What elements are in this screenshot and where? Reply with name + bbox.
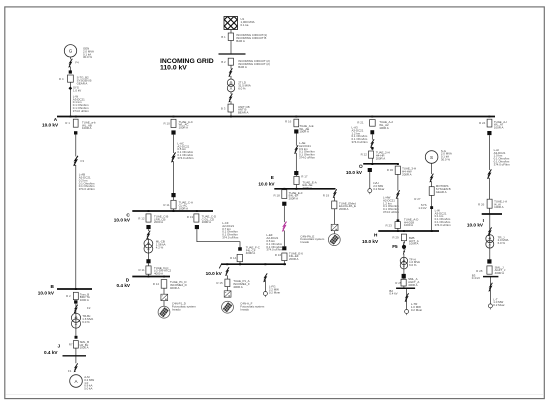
breaker R16b bbox=[282, 253, 287, 261]
wire down to bus B bbox=[75, 135, 77, 290]
magenta fault bolt bbox=[282, 222, 287, 232]
node square bbox=[171, 130, 175, 134]
svg-text:TUAE_2-HH4-HR200R A: TUAE_2-HH4-HR200R A bbox=[376, 151, 390, 161]
svg-text:F1: F1 bbox=[68, 369, 72, 373]
wire down to bus H bbox=[397, 174, 399, 231]
generator GEN bbox=[64, 45, 76, 57]
breaker R2 bbox=[73, 292, 78, 299]
wire down to bus F bbox=[283, 206, 285, 247]
wire bbox=[75, 304, 77, 336]
node square bbox=[402, 274, 406, 279]
svg-text:R 13: R 13 bbox=[187, 215, 194, 219]
svg-text:B20.4 kV: B20.4 kV bbox=[389, 289, 397, 296]
fault bolt bbox=[370, 139, 374, 148]
node square bbox=[171, 193, 175, 197]
junctions on bus E bbox=[283, 188, 297, 190]
svg-text:R7: R7 bbox=[69, 342, 73, 346]
wire down bbox=[371, 134, 373, 150]
svg-text:L-AEA2-DC210.9 km0.1 Ohm/km0.1: L-AEA2-DC210.9 km0.1 Ohm/km0.1 Ohm/km374… bbox=[299, 141, 316, 160]
junctions on bus C bbox=[148, 210, 198, 212]
transformer ML-CB bbox=[144, 239, 153, 253]
svg-text:R 16: R 16 bbox=[285, 120, 292, 124]
breaker R12b bbox=[161, 280, 167, 289]
breaker B1 bbox=[228, 33, 233, 41]
node square bbox=[69, 70, 72, 73]
svg-text:TUAE_C-DC-DL_CD100R A: TUAE_C-DC-DL_CD100R A bbox=[202, 214, 216, 224]
fault bolt under I2 bbox=[488, 283, 492, 292]
wire grid to B1 bbox=[230, 30, 232, 33]
external grid U1 bbox=[214, 7, 247, 36]
svg-text:10.0 kV: 10.0 kV bbox=[258, 182, 275, 187]
node square bbox=[195, 225, 199, 229]
bus D 0.4 kV bbox=[132, 276, 170, 278]
breaker R26 bbox=[487, 199, 492, 208]
svg-text:INCOMING CIRCUIT (2)INCOMING C: INCOMING CIRCUIT (2)INCOMING CIRCUIT (2)… bbox=[238, 59, 270, 69]
fault node F5 bbox=[403, 241, 405, 246]
svg-text:R 19: R 19 bbox=[323, 193, 330, 197]
load feeder on bus F bbox=[263, 273, 267, 282]
svg-text:R 27: R 27 bbox=[414, 197, 421, 201]
svg-text:L-ACA2-DC210.5 km0.1 Ohm/km0.1: L-ACA2-DC210.5 km0.1 Ohm/km0.1 Ohm/km374… bbox=[177, 141, 194, 160]
node square bbox=[74, 131, 77, 134]
svg-text:TUAE_a-bWL_AB100R A: TUAE_a-bWL_AB100R A bbox=[82, 120, 96, 130]
svg-text:TUAE_A-2WL_A2100R A: TUAE_A-2WL_A2100R A bbox=[379, 120, 393, 130]
transformer TR-B bbox=[71, 313, 80, 328]
svg-text:R 28: R 28 bbox=[476, 269, 483, 273]
svg-text:TUAE_F-CF4L-CF400R A: TUAE_F-CF4L-CF400R A bbox=[246, 245, 260, 255]
fault bolt bbox=[429, 174, 433, 183]
svg-text:L-AIA3-DC211.0 km0.1 Ohm/km0.1: L-AIA3-DC211.0 km0.1 Ohm/km0.1 Ohm/km374… bbox=[494, 148, 511, 167]
svg-text:C4N-A_FFotovoltaic systemInvad: C4N-A_FFotovoltaic systemInvado bbox=[240, 302, 265, 312]
fault bolt under bus F bbox=[225, 267, 229, 276]
breaker R13 bbox=[194, 214, 199, 222]
svg-text:U11,000 MVA0.1 ka: U11,000 MVA0.1 ka bbox=[241, 17, 255, 27]
breaker R16 bbox=[294, 119, 299, 127]
svg-text:R 24: R 24 bbox=[479, 121, 486, 125]
bus H2 0.4 kV bbox=[396, 287, 415, 289]
pv panel D bbox=[158, 306, 170, 318]
svg-text:TUAE_A-DH4-D281000 A: TUAE_A-DH4-D281000 A bbox=[404, 217, 418, 227]
wire bbox=[226, 276, 228, 294]
svg-text:L-WA3-DC210.1 km0.1 Ohm/km0.1: L-WA3-DC210.1 km0.1 Ohm/km0.1 Ohm/km374.… bbox=[73, 94, 90, 113]
svg-text:TUAE_EMedE4-DG-PA_E200R A: TUAE_EMedE4-DG-PA_E200R A bbox=[339, 201, 356, 211]
breaker R30 bbox=[395, 166, 400, 174]
fault bolt under H2 bbox=[405, 293, 409, 302]
G end circle bbox=[359, 165, 362, 168]
generator S-G bbox=[425, 151, 438, 164]
wire to bus F bbox=[239, 262, 241, 264]
breaker R17 bbox=[294, 176, 299, 184]
svg-text:TUAE_I-AI4_AI100R A: TUAE_I-AI4_AI100R A bbox=[494, 199, 507, 209]
svg-text:L-TR1.0 MW0.2 Mvar: L-TR1.0 MW0.2 Mvar bbox=[411, 302, 422, 312]
breaker R12 bbox=[146, 214, 151, 222]
load circle I2 bbox=[488, 304, 492, 310]
svg-text:SML_BLR_Bx1000 A: SML_BLR_Bx1000 A bbox=[80, 340, 90, 350]
bus F 10.0 kV bbox=[221, 263, 286, 265]
wire bbox=[489, 214, 491, 259]
svg-text:UNIT CBANT BBEAR A: UNIT CBANT BBEAR A bbox=[238, 105, 250, 115]
svg-text:10.0 kV: 10.0 kV bbox=[467, 222, 484, 227]
svg-text:F4: F4 bbox=[75, 61, 79, 65]
node square bbox=[238, 247, 242, 251]
svg-text:TUAE_D-CLG-DN-ATC24000 A: TUAE_D-CLG-DN-ATC24000 A bbox=[154, 266, 172, 276]
node SYS diamond bbox=[68, 86, 72, 90]
svg-text:2T LD31.5 MVA6.0 %: 2T LD31.5 MVA6.0 % bbox=[238, 81, 251, 91]
svg-text:R 16: R 16 bbox=[275, 253, 282, 257]
fault bolt F3 bbox=[73, 156, 78, 166]
wire down to bus E bbox=[295, 134, 297, 189]
svg-text:R 11: R 11 bbox=[163, 203, 169, 207]
svg-text:1.0 kV: 1.0 kV bbox=[418, 206, 426, 210]
wire down to bus I bbox=[488, 135, 490, 214]
svg-text:J: J bbox=[58, 343, 61, 348]
svg-text:TUAE_E-6F4L-EF200R A: TUAE_E-6F4L-EF200R A bbox=[289, 251, 303, 261]
fault bolt under transformer bbox=[228, 94, 232, 103]
fault bolt under bus I bbox=[488, 227, 492, 236]
svg-text:TUAE_A-IWL_AI100R A: TUAE_A-IWL_AI100R A bbox=[494, 120, 507, 130]
transformer TF-H bbox=[400, 257, 407, 269]
inverter E bbox=[331, 224, 338, 230]
svg-text:L-T1.0 MW0.2 Mvar: L-T1.0 MW0.2 Mvar bbox=[493, 297, 504, 307]
breaker R10 bbox=[171, 119, 176, 127]
svg-text:S-G2.0 MVA0.1 kA30.0 %: S-G2.0 MVA0.1 kA30.0 % bbox=[441, 149, 452, 162]
svg-text:F2: F2 bbox=[87, 306, 91, 310]
wire R4 to bus A bbox=[69, 82, 71, 116]
svg-text:10.0 kV: 10.0 kV bbox=[206, 271, 223, 276]
svg-text:L-FG2.2 MW0.2 Mvar: L-FG2.2 MW0.2 Mvar bbox=[269, 285, 280, 295]
wire bbox=[406, 288, 408, 309]
svg-text:TUAE_P1_DINCOME2_D400R A: TUAE_P1_DINCOME2_D400R A bbox=[170, 280, 187, 290]
node square bbox=[487, 131, 491, 135]
svg-text:L-WA3-DC210.1 km0.1 Ohm/km0.1: L-WA3-DC210.1 km0.1 Ohm/km0.1 Ohm/km374.… bbox=[435, 208, 452, 227]
svg-text:R 18: R 18 bbox=[274, 193, 281, 197]
svg-text:TUAE_C-ACL-AC100R A: TUAE_C-ACL-AC100R A bbox=[179, 201, 193, 211]
breaker B2 bbox=[228, 58, 233, 65]
wire gen down bbox=[70, 57, 72, 71]
junction squares on bus A bbox=[70, 116, 491, 118]
fault bolt bbox=[146, 231, 150, 240]
breaker R25 bbox=[401, 279, 406, 286]
svg-text:TUAE_P1_AINCOME1_F400R A: TUAE_P1_AINCOME1_F400R A bbox=[233, 279, 250, 289]
svg-text:B30.4 kV: B30.4 kV bbox=[472, 273, 480, 280]
svg-text:R 15: R 15 bbox=[216, 281, 223, 285]
wire B2 down bbox=[230, 65, 232, 79]
wire down bbox=[333, 209, 335, 234]
fault bolt on incoming bbox=[228, 68, 232, 77]
node square bbox=[294, 129, 298, 133]
bus G 10.0 kV bbox=[363, 163, 398, 165]
wire bbox=[163, 288, 165, 306]
svg-text:B 2: B 2 bbox=[221, 60, 226, 64]
breaker R24 bbox=[487, 119, 492, 127]
wire to bus F bbox=[283, 261, 285, 265]
svg-text:10.0 kV: 10.0 kV bbox=[42, 123, 59, 128]
svg-text:0.4 kV: 0.4 kV bbox=[117, 283, 131, 288]
svg-text:G: G bbox=[69, 49, 73, 54]
svg-text:H: H bbox=[374, 233, 378, 238]
breaker R22 bbox=[369, 151, 374, 158]
node square bbox=[371, 147, 373, 149]
svg-text:R 26: R 26 bbox=[478, 203, 485, 207]
breaker R11 bbox=[171, 200, 176, 209]
svg-text:R 11: R 11 bbox=[139, 268, 145, 272]
svg-text:F5: F5 bbox=[392, 244, 398, 249]
wire bbox=[489, 277, 491, 304]
wire B1 to bus bbox=[230, 41, 232, 54]
breaker R28 bbox=[487, 266, 492, 274]
svg-text:R 12: R 12 bbox=[153, 282, 160, 286]
svg-text:D: D bbox=[126, 278, 130, 283]
svg-text:10.0 kV: 10.0 kV bbox=[38, 290, 55, 295]
svg-text:R 23: R 23 bbox=[386, 224, 393, 228]
svg-text:R 29: R 29 bbox=[392, 236, 399, 240]
svg-text:A: A bbox=[54, 117, 58, 122]
wire down bbox=[403, 241, 405, 289]
svg-text:A-M0.2 MW1.00.9 kA5.0 kA: A-M0.2 MW1.00.9 kA5.0 kA bbox=[84, 375, 94, 391]
transformer TR_J bbox=[486, 235, 494, 249]
breaker R4 bbox=[68, 75, 74, 82]
load LVH on bus G bbox=[368, 168, 372, 172]
bus F end tick bbox=[219, 264, 221, 268]
wire down bbox=[431, 163, 433, 231]
svg-text:C4N-P1_DFotovoltaic systemInva: C4N-P1_DFotovoltaic systemInvado bbox=[172, 302, 197, 312]
svg-text:TR_J2.0 MVA6.0 %: TR_J2.0 MVA6.0 % bbox=[498, 235, 509, 245]
bus J 0.4 kV bbox=[63, 355, 87, 357]
fault bolt bbox=[294, 145, 298, 154]
load circle F bbox=[263, 292, 267, 298]
svg-text:TR-Bx1.6 MVA6.0 %: TR-Bx1.6 MVA6.0 % bbox=[82, 314, 93, 324]
svg-text:110.0 kV: 110.0 kV bbox=[160, 64, 187, 71]
bus H 10.0 kV bbox=[378, 230, 439, 232]
svg-text:R 1: R 1 bbox=[65, 121, 70, 125]
fault bolt bbox=[396, 190, 400, 199]
breaker B3 bbox=[228, 104, 233, 112]
svg-text:R 2: R 2 bbox=[66, 294, 71, 298]
svg-text:L-CFA2-DC210.7 km0.1 Ohm/km0.1: L-CFA2-DC210.7 km0.1 Ohm/km0.1 Ohm/km374… bbox=[222, 221, 239, 240]
svg-text:Tran_BBFR TA1000 A: Tran_BBFR TA1000 A bbox=[80, 292, 90, 302]
svg-text:10.0 kV: 10.0 kV bbox=[114, 217, 131, 222]
node square bbox=[74, 300, 77, 303]
fault bolt F2 bbox=[74, 305, 78, 314]
svg-text:GEN2.0 MVA0.1 kA30.0 %: GEN2.0 MVA0.1 kA30.0 % bbox=[83, 47, 94, 60]
svg-text:R 12: R 12 bbox=[138, 216, 145, 220]
node square bbox=[294, 171, 298, 175]
svg-text:L-A3A3-DC211.2 km0.1 Ohm/km0.1: L-A3A3-DC211.2 km0.1 Ohm/km0.1 Ohm/km374… bbox=[352, 126, 369, 145]
faint footer line bbox=[5, 394, 544, 396]
svg-text:SML_JAGFT_J400R A: SML_JAGFT_J400R A bbox=[495, 265, 506, 275]
svg-text:TUAE_C-BLRR_CB2000 A: TUAE_C-BLRR_CB2000 A bbox=[154, 214, 168, 224]
wire B3 to bus A bbox=[230, 112, 232, 117]
svg-text:R 17: R 17 bbox=[301, 175, 308, 179]
bus I2 0.4 kV bbox=[483, 276, 498, 278]
breaker R21 bbox=[370, 120, 376, 127]
svg-text:INCOMING CIRCUIT(1)INCOMING CI: INCOMING CIRCUIT(1)INCOMING CIRCUIT BBAR… bbox=[236, 33, 267, 43]
svg-text:R 25: R 25 bbox=[395, 281, 402, 285]
pv panel F bbox=[222, 301, 234, 313]
svg-text:L-ABA2-DC210.2 km0.1 Ohm/km0.1: L-ABA2-DC210.2 km0.1 Ohm/km0.1 Ohm/km374… bbox=[79, 173, 96, 192]
bus INCOMING GRID 110.0 kV bbox=[219, 53, 246, 55]
breaker R1 bbox=[73, 119, 78, 127]
wire to bus G bbox=[371, 158, 373, 164]
breaker R15 bbox=[225, 279, 230, 287]
breaker S bbox=[429, 187, 434, 196]
svg-text:R 4: R 4 bbox=[59, 77, 64, 81]
svg-text:R 21: R 21 bbox=[357, 120, 364, 124]
bus E 10.0 kV bbox=[274, 188, 335, 190]
transformer 2T LD bbox=[227, 79, 234, 92]
fault bolt at bus E end bbox=[333, 189, 337, 198]
wire to bus J bbox=[75, 348, 77, 363]
svg-text:10.0 kV: 10.0 kV bbox=[346, 170, 363, 175]
fault bolt F4 bbox=[68, 59, 72, 68]
svg-text:B 1: B 1 bbox=[221, 35, 226, 39]
node square bbox=[487, 259, 491, 263]
pv panel E bbox=[328, 234, 340, 246]
wire jog C->F bbox=[197, 229, 240, 247]
svg-text:TUAE_A-EWL_AE100R A: TUAE_A-EWL_AE100R A bbox=[299, 124, 313, 134]
svg-text:B 3: B 3 bbox=[221, 106, 226, 110]
bus C 10.0 kV bbox=[132, 210, 213, 212]
breaker R7 bbox=[73, 341, 78, 349]
svg-text:TUAE_E-0E4L-EF200R A: TUAE_E-0E4L-EF200R A bbox=[289, 191, 303, 201]
bus B 10.0 kV bbox=[57, 288, 92, 290]
breaker R11b bbox=[146, 266, 151, 274]
svg-text:TF-H1.0 MVA6.0 %: TF-H1.0 MVA6.0 % bbox=[409, 257, 420, 267]
node square bbox=[370, 130, 374, 134]
load circle H2 bbox=[405, 310, 409, 316]
svg-text:C4N-PA_EFotovoltaic systemInva: C4N-PA_EFotovoltaic systemInvado bbox=[300, 234, 325, 244]
wire down to bus C bbox=[173, 135, 175, 211]
breaker R14 bbox=[237, 254, 242, 261]
svg-text:F3: F3 bbox=[81, 159, 85, 163]
svg-text:E: E bbox=[271, 175, 274, 180]
inverter D bbox=[161, 294, 168, 300]
node square bbox=[282, 246, 286, 250]
motor A-M bbox=[70, 375, 83, 388]
svg-text:TUAE_3-HH4-HW200R A: TUAE_3-HH4-HW200R A bbox=[402, 167, 416, 177]
bus I 10.0 kV bbox=[482, 213, 502, 215]
svg-text:MOTORSSYSGEN BGEAR A: MOTORSSYSGEN BGEAR A bbox=[436, 184, 451, 194]
svg-text:R 14: R 14 bbox=[230, 256, 237, 260]
svg-text:R 10: R 10 bbox=[164, 121, 171, 125]
svg-text:B: B bbox=[51, 284, 55, 289]
node square bbox=[397, 219, 400, 221]
node square bbox=[282, 202, 286, 206]
node square bbox=[146, 225, 150, 229]
junctions on bus F bbox=[226, 263, 285, 265]
wire down bbox=[147, 229, 149, 276]
fault bolt bbox=[487, 169, 492, 179]
svg-text:R 30: R 30 bbox=[387, 168, 394, 172]
breaker R19 bbox=[332, 201, 337, 209]
wire transformer down bbox=[230, 92, 232, 104]
svg-text:S-TG_B2SYSGEN BGEAR A: S-TG_B2SYSGEN BGEAR A bbox=[77, 76, 92, 86]
svg-text:LVH2.0 MW0.2 Mvar: LVH2.0 MW0.2 Mvar bbox=[373, 181, 384, 191]
svg-text:0.4 kV: 0.4 kV bbox=[44, 350, 58, 355]
svg-text:R 22: R 22 bbox=[361, 152, 368, 156]
svg-text:10.0 kV: 10.0 kV bbox=[362, 239, 379, 244]
bus A 10.0 kV bbox=[57, 116, 495, 118]
inverter F bbox=[224, 291, 231, 297]
breaker R18 bbox=[282, 190, 287, 199]
junctions on bus H bbox=[397, 230, 433, 232]
svg-text:ML-CB1.58 kA4.2 %: ML-CB1.58 kA4.2 % bbox=[156, 240, 166, 250]
junction on bus G bbox=[371, 163, 399, 165]
svg-text:SML_AAGFT_A400R A: SML_AAGFT_A400R A bbox=[408, 277, 419, 287]
svg-text:SYS1.0 kV: SYS1.0 kV bbox=[73, 86, 81, 93]
svg-text:S: S bbox=[430, 155, 433, 160]
fault bolt bbox=[171, 152, 176, 162]
breaker R29 bbox=[401, 234, 406, 241]
fault bolt F1 bbox=[74, 363, 78, 372]
breaker R23 bbox=[395, 222, 400, 229]
svg-text:L-EFA2-DC210.5 km0.1 Ohm/km0.1: L-EFA2-DC210.5 km0.1 Ohm/km0.1 Ohm/km374… bbox=[266, 233, 283, 252]
svg-text:TUAE_A-CWL_AC100R A: TUAE_A-CWL_AC100R A bbox=[179, 120, 193, 130]
load circle G bbox=[368, 189, 372, 195]
node square bbox=[146, 259, 150, 263]
node square bbox=[75, 336, 78, 339]
svg-text:B2BHOT_A100R A: B2BHOT_A100R A bbox=[409, 236, 419, 246]
